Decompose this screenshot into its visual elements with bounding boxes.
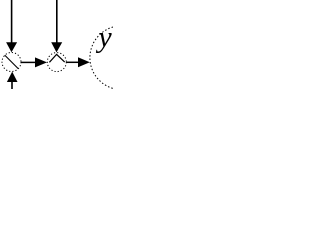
svg-text:y: y: [95, 21, 112, 54]
